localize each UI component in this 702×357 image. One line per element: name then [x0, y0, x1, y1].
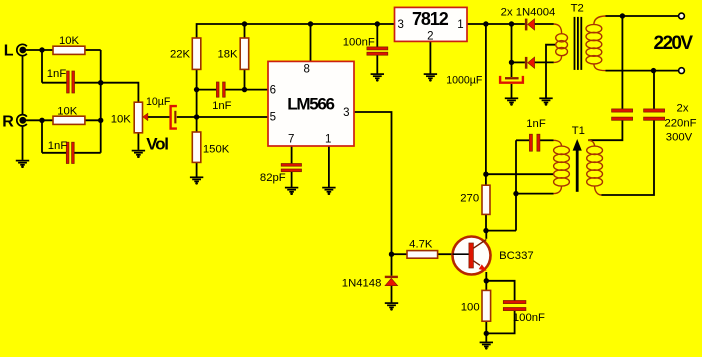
svg-text:2x: 2x: [677, 103, 689, 115]
wire T1 primary bottom lead: [516, 193, 554, 195]
junction 12V supply branch: [483, 21, 488, 26]
junction output line 1: [620, 13, 625, 18]
junction output line 2: [651, 68, 656, 73]
svg-text:T2: T2: [571, 3, 584, 15]
T2 secondary winding: [586, 16, 606, 71]
wire 100nF bottom lead: [376, 55, 378, 74]
wire emitter down: [485, 272, 487, 281]
ground (Vol): [132, 151, 145, 158]
wire collector: [485, 231, 487, 239]
wire 220nF A top: [621, 16, 623, 109]
wire 220nF A bottom to T1: [588, 120, 622, 140]
svg-text:82pF: 82pF: [260, 172, 286, 184]
wire T2 secondary top out: [606, 15, 680, 17]
ground (100nF supply): [371, 74, 384, 81]
T2 primary winding: [554, 24, 568, 62]
svg-text:220nF: 220nF: [664, 117, 696, 129]
wire pin 8: [310, 24, 312, 61]
svg-text:LM566: LM566: [287, 94, 334, 113]
wire T1 primary bottom vertical: [515, 140, 517, 230]
capacitor 100nF (emitter): [503, 301, 526, 311]
wire 10uF to pin5 line: [177, 116, 268, 118]
wire 4.7K to base: [438, 253, 453, 255]
op-amp U1 LM566: [268, 61, 354, 146]
svg-text:3: 3: [397, 19, 403, 31]
wire pin 7 to 82pF: [291, 146, 293, 164]
svg-text:100: 100: [461, 302, 480, 314]
wire node to 270: [485, 174, 487, 185]
T1 primary winding: [554, 140, 570, 193]
svg-text:1nF: 1nF: [47, 68, 67, 80]
wire diode1 to T2: [535, 23, 554, 25]
wire 100nF bottom: [486, 311, 514, 334]
resistor 270: [482, 185, 490, 214]
svg-text:8: 8: [303, 63, 309, 75]
junction emitter node: [484, 278, 489, 283]
wire 18K top: [244, 24, 246, 38]
wire collector node right: [486, 230, 516, 232]
terminal output top: [679, 13, 685, 19]
regulator 7812: [395, 7, 468, 42]
junction L input node: [39, 47, 44, 52]
wire 10K right to node: [85, 49, 101, 51]
svg-text:T1: T1: [572, 125, 585, 137]
svg-text:7812: 7812: [412, 9, 449, 29]
T1 core arrow: [573, 139, 582, 192]
wire R node down: [41, 120, 43, 153]
svg-text:150K: 150K: [203, 143, 230, 155]
wire R cap right lead: [74, 152, 101, 154]
wire 270 to collector node: [485, 214, 487, 230]
wire emitter to 100: [485, 281, 487, 291]
wire 7812 output: [467, 23, 525, 25]
capacitor 1000uF (polarized): [500, 76, 523, 83]
capacitor 10uF (polarized): [171, 106, 177, 129]
wire R shield to ground: [22, 126, 24, 160]
svg-text:1N4148: 1N4148: [342, 277, 382, 289]
wire 150K to ground: [196, 162, 198, 176]
wire 1nF series right lead: [225, 89, 244, 91]
wire T2 secondary bottom out: [606, 70, 680, 72]
svg-text:10K: 10K: [57, 106, 78, 118]
svg-text:2x 1N4004: 2x 1N4004: [501, 7, 556, 19]
wire rectifier node vertical: [511, 24, 513, 77]
wire 1nF series left lead: [197, 89, 217, 91]
wire diode2 to T2: [535, 61, 554, 63]
wire R 10K right to node: [85, 119, 101, 121]
svg-text:4.7K: 4.7K: [409, 239, 433, 251]
svg-text:1nF: 1nF: [212, 100, 232, 112]
wire vertical mix node: [100, 50, 102, 153]
resistor 10K (L): [53, 46, 85, 54]
wire 1nF T1 right lead: [540, 139, 554, 141]
svg-text:Vol: Vol: [146, 134, 168, 153]
ground (100 emitter): [480, 342, 493, 348]
resistor 4.7K: [407, 251, 438, 259]
junction pin5/150K node: [194, 114, 199, 119]
junction mix node top: [98, 80, 103, 85]
capacitor 220nF B: [644, 109, 665, 120]
wire 100 to ground: [485, 321, 487, 342]
wire mix node to pot top: [101, 83, 139, 103]
junction T1 primary bottom node: [513, 191, 518, 196]
ground (7812): [424, 74, 437, 81]
svg-text:1: 1: [457, 19, 463, 31]
capacitor 1nF (L): [67, 71, 75, 93]
wire emitter to 100nF: [486, 281, 514, 301]
transistor Q1 BC337: [453, 237, 491, 275]
junction rectifier node: [509, 21, 514, 26]
wire pin 1 to ground: [328, 146, 330, 187]
svg-text:100nF: 100nF: [513, 312, 545, 324]
capacitor 82pF: [281, 164, 301, 172]
wire T2 center tap: [546, 45, 556, 98]
connector L: [17, 44, 27, 55]
svg-text:3: 3: [343, 107, 349, 119]
wire L node down: [41, 50, 43, 83]
wire L-R shield: [22, 56, 24, 115]
ground (1N4148): [385, 303, 398, 310]
wire L input to 10K: [25, 49, 53, 51]
capacitor 100nF (supply): [367, 47, 388, 55]
wire L cap left lead: [42, 82, 67, 84]
potentiometer 10K Vol: [134, 102, 148, 133]
resistor 22K: [192, 38, 201, 69]
svg-text:100nF: 100nF: [343, 37, 375, 49]
ground (T2 center tap): [539, 98, 552, 105]
svg-text:18K: 18K: [217, 48, 238, 60]
wire 7812 gnd pin 2: [429, 41, 431, 74]
junction base/diode node: [389, 252, 394, 257]
svg-text:220V: 220V: [654, 33, 694, 54]
diode 1N4148: [385, 276, 398, 286]
ground (R input): [16, 161, 29, 168]
wire base node to 4.7K: [392, 253, 408, 255]
junction rail 100nF: [375, 21, 380, 26]
wire node to diode2: [512, 61, 525, 63]
capacitor 1nF (T1): [529, 134, 540, 151]
junction emitter ground node: [484, 331, 489, 336]
T2 core: [575, 17, 582, 70]
wire 1nF T1 left lead: [516, 139, 529, 141]
connector R: [17, 115, 27, 126]
terminal output bottom: [679, 68, 685, 74]
wire supply drop to T1: [485, 24, 487, 174]
svg-text:1000µF: 1000µF: [446, 75, 483, 87]
transformer T1: [554, 139, 603, 195]
svg-text:L: L: [4, 42, 14, 59]
svg-text:1: 1: [325, 133, 331, 145]
junction 18K/pin6 node: [242, 87, 247, 92]
junction rail pin8: [308, 21, 313, 26]
wire pin 3 to base node: [354, 112, 392, 276]
wire T1 center tap feed: [486, 173, 554, 175]
wire top supply rail: [197, 24, 395, 38]
svg-text:22K: 22K: [170, 48, 191, 60]
junction T1 center tap node: [483, 172, 488, 177]
junction diode2 node: [509, 60, 514, 65]
capacitor 1nF (R): [66, 142, 74, 163]
wire 220nF B top: [653, 71, 655, 109]
wire L cap right lead: [75, 82, 101, 84]
wire 220nF B bottom to T1: [601, 120, 654, 195]
resistor 18K: [240, 38, 249, 69]
junction R input node: [39, 118, 44, 123]
svg-text:2: 2: [427, 31, 433, 43]
wire 1000uF to ground: [511, 84, 513, 98]
svg-text:300V: 300V: [666, 131, 693, 143]
wire pot wiper: [148, 116, 170, 118]
ground (82pF): [285, 188, 298, 195]
svg-text:10µF: 10µF: [146, 96, 171, 108]
wire 100nF top lead: [376, 24, 378, 47]
wire 1N4148 to ground: [391, 285, 393, 302]
ground (pin 1): [322, 188, 335, 195]
junction rail 18K: [242, 21, 247, 26]
svg-text:6: 6: [270, 85, 276, 97]
wire 82pF to ground: [291, 172, 293, 188]
junction 22K/1nF node: [194, 87, 199, 92]
ground (1000uF): [505, 98, 518, 105]
wire 18K bottom to pin 6: [245, 69, 269, 89]
svg-text:R: R: [2, 113, 14, 130]
svg-text:10K: 10K: [111, 113, 132, 125]
svg-text:5: 5: [270, 111, 276, 123]
diode D1 1N4004: [525, 19, 535, 31]
svg-text:270: 270: [460, 193, 479, 205]
svg-text:10K: 10K: [59, 35, 80, 47]
svg-text:BC337: BC337: [499, 250, 534, 262]
capacitor 1nF (series): [216, 82, 225, 97]
resistor 100: [482, 290, 491, 321]
svg-text:1nF: 1nF: [526, 118, 546, 130]
resistor 150K: [192, 132, 201, 162]
resistor 10K (R): [53, 116, 85, 124]
transformer T2: [554, 16, 606, 71]
junction collector node: [483, 228, 488, 233]
ground (150K): [190, 177, 203, 184]
wire pot bottom to ground: [137, 133, 139, 150]
diode D2 1N4004: [525, 57, 535, 69]
svg-text:7: 7: [288, 133, 294, 145]
wire R input to 10K: [25, 119, 53, 121]
wire 22K node vertical: [196, 69, 198, 132]
wire R cap left lead: [42, 152, 66, 154]
junction mix node R: [98, 118, 103, 123]
svg-text:1nF: 1nF: [48, 140, 68, 152]
capacitor 220nF A: [612, 109, 633, 120]
T1 secondary winding: [587, 140, 603, 195]
